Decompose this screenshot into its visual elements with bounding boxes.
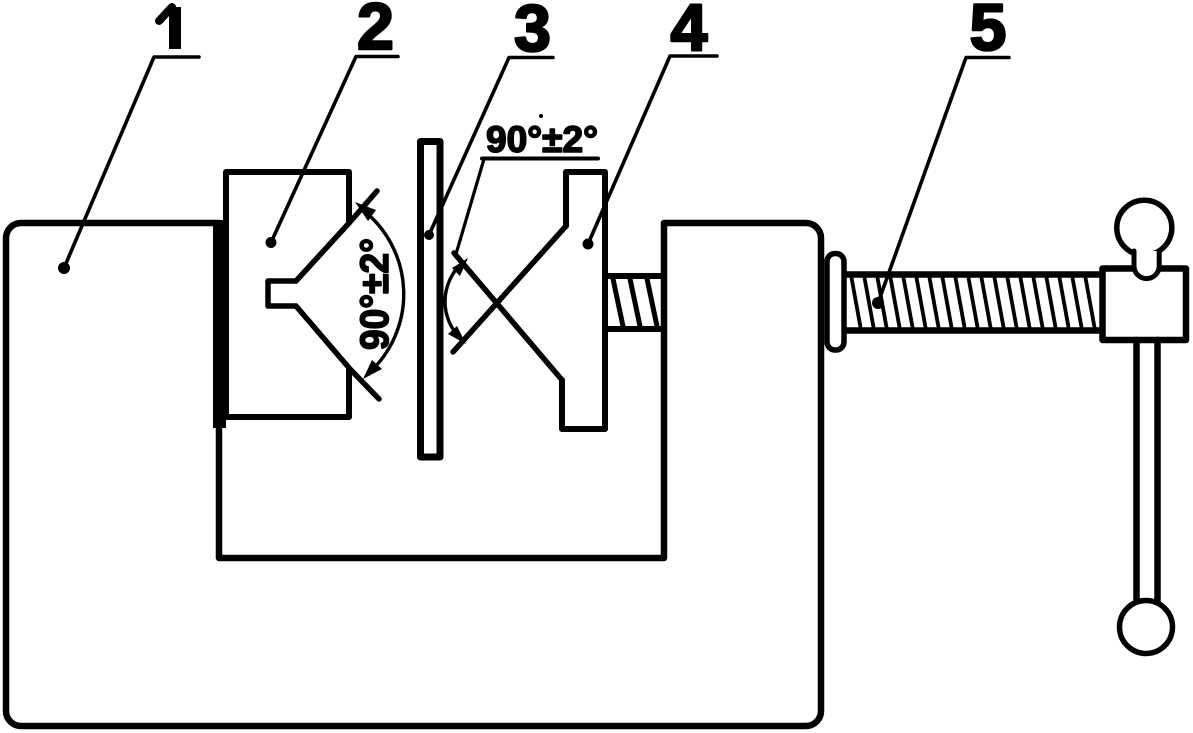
screw shaft hatching [851,275,1095,330]
spacer plate (part 3) [421,142,441,458]
svg-text:90°±2°: 90°±2° [353,238,397,350]
nut block [1103,269,1187,341]
jaw backing gap (black bar) [213,220,226,428]
screw section hatching [612,274,675,331]
part 4 cone silhouette line upper-left to lower-right [453,226,566,352]
ball neck [1134,251,1159,279]
angle dimension arc part 4 [445,264,461,338]
callout 1 [169,7,181,49]
arc arrow lower (part 2) [363,360,382,379]
arc arrow upper (part 2) [355,202,376,221]
fixed jaw block (part 2) [226,172,349,417]
arc arrow upper (part 4) [452,258,468,276]
screw shaft (part 5) [847,275,1102,331]
angle dimension arc part 2 [363,210,404,372]
part 2 cone face upper [296,191,377,281]
svg-text:90°±2°: 90°±2° [486,119,598,160]
handle bottom ball [1120,601,1173,654]
svg-text:3: 3 [514,0,551,65]
label underline part 4 [482,157,598,161]
movable jaw block (part 4) [562,172,605,429]
label leader part 4 [456,159,484,254]
part 4 cone silhouette line lower-left to upper-right [454,253,562,380]
body frame (part 1) [6,223,821,726]
handle rod [1133,340,1140,601]
part 2 vertex slot [268,281,296,306]
speck [540,8,544,12]
arc arrow lower (part 4) [448,326,466,344]
part 2 cone face lower [296,306,379,399]
collar boss on body [827,254,844,351]
screw section between jaw and column [605,273,664,279]
leader 5 dot [872,297,884,309]
svg-text:2: 2 [357,0,394,63]
speck [539,114,543,118]
svg-text:5: 5 [970,0,1007,64]
handle top ball [1117,200,1172,255]
